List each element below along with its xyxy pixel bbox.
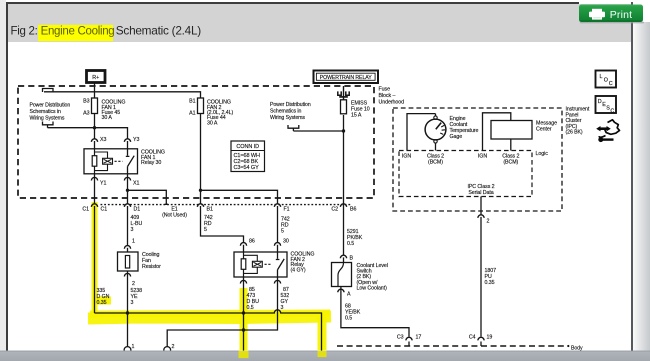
- wire label 473 D BU 0.5: [247, 293, 260, 311]
- connector B coolant switch: [343, 255, 345, 257]
- connector F1: [277, 204, 279, 206]
- wire X1 down to D1 and resistor (ckt 409): [127, 174, 129, 252]
- connector relay2 pin 87: [277, 280, 279, 282]
- svg-text:POWERTRAIN RELAY: POWERTRAIN RELAY: [320, 75, 372, 81]
- svg-text:1: 1: [132, 239, 135, 245]
- highlighter runoff over strip (fan2 drop): [318, 351, 327, 358]
- connector X3: [94, 139, 96, 141]
- wire label 5238 YE 3: [131, 288, 143, 306]
- highlighter on fan2 feed drop: [318, 314, 327, 350]
- svg-text:Logic: Logic: [536, 151, 549, 157]
- Fuse Block Underhood note: [379, 87, 405, 106]
- svg-text:CONN ID: CONN ID: [236, 144, 259, 150]
- power distribution note (middle): [270, 102, 311, 121]
- svg-text:C: C: [610, 108, 614, 114]
- fuse 45 COOLING FAN 1: [92, 98, 98, 114]
- connector X1: [127, 177, 129, 179]
- gauge G1 Engine Coolant Temperature Gage: [425, 119, 446, 140]
- svg-text:2: 2: [172, 344, 175, 350]
- svg-text:C4: C4: [469, 335, 476, 341]
- wire C4 to body ground: [480, 342, 482, 347]
- connector B1: [200, 204, 202, 206]
- connector A coolant switch: [340, 289, 342, 291]
- svg-text:Power Distribution: Power Distribution: [270, 102, 311, 108]
- wire message center to Class 2: [510, 139, 512, 151]
- fuse block underhood dashed box: [18, 86, 374, 198]
- svg-text:A: A: [347, 292, 351, 298]
- connector below resistor pin 2: [127, 273, 129, 275]
- svg-text:B: B: [350, 256, 354, 262]
- highlighter horizontal band over fan feed bus: [88, 317, 331, 319]
- svg-text:Schematics in: Schematics in: [270, 109, 301, 115]
- connector D1: [127, 204, 129, 206]
- svg-text:(Not Used): (Not Used): [162, 213, 187, 219]
- wire fuse 45 to relay: [94, 114, 96, 149]
- wire label 742 RD 5 (F1): [281, 217, 290, 235]
- svg-text:B1: B1: [207, 207, 213, 213]
- connector C2 pin B6: [343, 204, 345, 206]
- node B1 branch: [199, 189, 202, 192]
- svg-text:A3: A3: [83, 111, 89, 117]
- left gutter: [0, 0, 6, 361]
- instrument panel cluster dashed box: [393, 108, 562, 211]
- wire EMISS fuse to C2 and coolant switch (ckt 5291): [343, 115, 345, 263]
- bottom grey strip: [0, 351, 650, 361]
- svg-text:B6: B6: [350, 207, 356, 213]
- svg-text:R+: R+: [92, 75, 99, 81]
- resistor R1 Cooling Fan Resistor box: [118, 252, 139, 271]
- svg-text:C2: C2: [331, 207, 338, 213]
- EMISS fuse holder: [343, 86, 345, 100]
- svg-text:86: 86: [249, 239, 255, 245]
- svg-text:Print: Print: [610, 9, 633, 21]
- relay 2 suppression element: [252, 261, 262, 267]
- relay 2 coil: [243, 252, 245, 277]
- svg-text:Engine Cooling: Engine Cooling: [41, 26, 115, 38]
- print button: [580, 22, 644, 24]
- wire R+ to bus: [94, 83, 96, 99]
- node bus/473 junction: [242, 311, 245, 314]
- connector C3 pin 17: [408, 337, 410, 339]
- window frame lines: [6, 2, 579, 4]
- svg-text:(4 GY): (4 GY): [291, 268, 306, 274]
- svg-text:Fuse: Fuse: [379, 87, 391, 93]
- svg-text:1: 1: [132, 344, 135, 350]
- wire label 1807 PU 0.35: [485, 268, 497, 286]
- svg-text:Fig 2:: Fig 2:: [11, 26, 38, 38]
- title bar: [8, 4, 631, 42]
- svg-text:2: 2: [132, 281, 135, 287]
- svg-text:Relay 30: Relay 30: [141, 160, 161, 166]
- svg-text:IGN: IGN: [402, 154, 411, 160]
- fuse EMISS Fuse 10: [341, 100, 347, 114]
- connector row dotted line: [101, 204, 353, 206]
- highlighter on wire 473: [240, 288, 248, 350]
- svg-text:Resistor: Resistor: [142, 264, 161, 270]
- CONN ID table: [231, 141, 265, 172]
- wire label 68 YE/BK 0.5: [345, 304, 361, 322]
- wire B1 branch to F1 and relay 2 pin 30: [201, 190, 278, 252]
- svg-text:C1: C1: [82, 207, 89, 213]
- battery feed R+ box: [87, 71, 106, 83]
- fan 2 motor terminal: [164, 347, 171, 354]
- LOC button box: [596, 71, 617, 88]
- POWERTRAIN RELAY label box: [314, 71, 379, 84]
- svg-text:Power Distribution: Power Distribution: [30, 103, 71, 109]
- svg-text:C: C: [609, 81, 613, 87]
- wire fuse 44 to B1 and relay 2 pin 86: [201, 114, 244, 253]
- relay 2 switch: [276, 252, 284, 277]
- power distribution bracket bottom: [43, 122, 54, 128]
- svg-text:30 A: 30 A: [102, 115, 113, 121]
- svg-text:Wiring Systems: Wiring Systems: [30, 115, 65, 121]
- connector relay2 pin 30: [277, 242, 279, 244]
- fuse 44 COOLING FAN 2: [198, 98, 204, 114]
- coolant switch blade: [338, 263, 344, 287]
- wire gauge to Class 2: [435, 143, 437, 150]
- svg-text:Y3: Y3: [133, 137, 139, 143]
- relay 1 coil: [94, 149, 96, 174]
- svg-text:F1: F1: [284, 207, 290, 213]
- connector relay2 pin 85: [243, 280, 245, 282]
- node 473/532 junction: [242, 328, 245, 331]
- relay 1 coil suppression loop: [95, 152, 108, 171]
- svg-text:Schematics in: Schematics in: [30, 109, 61, 115]
- svg-text:0.35: 0.35: [97, 300, 107, 306]
- svg-text:B3: B3: [83, 99, 89, 105]
- svg-text:A1: A1: [189, 111, 195, 117]
- svg-text:(BCM): (BCM): [503, 160, 518, 166]
- connector C1: [94, 204, 96, 206]
- wire label 742 RD 5 (B1): [204, 215, 213, 233]
- svg-text:5: 5: [204, 227, 207, 233]
- svg-text:C3: C3: [397, 335, 404, 341]
- connector C4 pin 19: [480, 337, 482, 339]
- svg-text:3: 3: [131, 300, 134, 306]
- svg-text:(BCM): (BCM): [428, 160, 443, 166]
- wire gauge IGN feed: [407, 114, 436, 151]
- svg-text:Center: Center: [536, 127, 552, 133]
- relay U1 COOLING FAN 1 Relay 30 box: [84, 149, 138, 174]
- svg-text:0.35: 0.35: [485, 280, 495, 286]
- wire label 532 GY 3: [281, 293, 290, 311]
- relay 1 actuator dashes: [115, 160, 123, 162]
- relay 1 suppression element: [103, 158, 113, 164]
- connector Y1: [94, 177, 96, 179]
- fan 1 motor terminal: [124, 347, 131, 354]
- node fuse/coil junction: [93, 126, 96, 129]
- power distribution note (left): [30, 103, 71, 122]
- svg-text:X1: X1: [133, 181, 139, 187]
- svg-text:15 A: 15 A: [351, 113, 362, 119]
- wire message center IGN feed: [483, 113, 511, 151]
- wire resistor to bus and fan1 (ckt 5238): [127, 271, 129, 347]
- svg-text:3: 3: [131, 227, 134, 233]
- svg-text:3: 3: [281, 305, 284, 311]
- svg-text:19: 19: [487, 335, 493, 341]
- node bus/resistor junction: [126, 311, 129, 314]
- wire Y1 to C1 to bus (ckt 335): [94, 174, 96, 313]
- connector pin 2 below IPC: [480, 215, 482, 217]
- power distribution bracket (middle): [288, 125, 299, 131]
- svg-text:30: 30: [283, 239, 289, 245]
- svg-text:17: 17: [416, 335, 422, 341]
- switch S1 Coolant Level Switch box: [332, 263, 352, 287]
- wire pin 85 down (ckt 473): [243, 277, 245, 351]
- svg-text:O: O: [604, 78, 608, 84]
- power distribution bracket top: [43, 89, 54, 93]
- svg-text:D: D: [598, 99, 602, 105]
- wire pin 87 to fan2 connector (ckt 532): [167, 277, 277, 347]
- svg-text:0.5: 0.5: [345, 316, 352, 322]
- highlighter runoff over strip (473 wire): [239, 351, 249, 359]
- svg-text:30 A: 30 A: [207, 120, 218, 126]
- svg-text:IGN: IGN: [478, 154, 487, 160]
- relay 1 switch: [126, 149, 134, 174]
- svg-text:Underhood: Underhood: [379, 99, 405, 105]
- svg-text:X3: X3: [100, 137, 106, 143]
- wire X1 branch to E1: [128, 190, 169, 204]
- hotlink jump icon: [596, 120, 619, 142]
- svg-text:(26 BK): (26 BK): [566, 130, 583, 136]
- Instrument Panel Cluster note: [566, 107, 590, 136]
- svg-text:5: 5: [281, 229, 284, 235]
- node X1 branch: [126, 189, 129, 192]
- relay 2 coil suppression loop: [244, 255, 258, 273]
- wire bracket to Y3: [48, 128, 128, 149]
- wire C3 to body ground: [408, 342, 410, 347]
- svg-text:Low Coolant): Low Coolant): [357, 285, 388, 291]
- svg-text:L: L: [600, 74, 603, 80]
- IPC logic inner dashed box: [399, 151, 532, 197]
- connector Y3: [127, 139, 129, 141]
- relay U2 COOLING FAN 2 Relay box: [234, 252, 287, 277]
- wire switch A to C3 (ckt 68): [341, 287, 409, 337]
- highlighter on wire 335 from C1: [92, 202, 98, 318]
- svg-text:Wiring Systems: Wiring Systems: [270, 115, 305, 121]
- svg-text:Serial Data: Serial Data: [468, 190, 493, 196]
- svg-text:B1: B1: [189, 99, 195, 105]
- wire bracket to EMISS wire: [293, 130, 343, 132]
- svg-text:0.5: 0.5: [247, 305, 254, 311]
- svg-text:D1: D1: [134, 207, 141, 213]
- svg-text:2: 2: [487, 219, 490, 225]
- svg-text:Schematic (2.4L): Schematic (2.4L): [116, 24, 201, 38]
- DESC button box: [596, 96, 617, 113]
- svg-text:C3=54 GY: C3=54 GY: [234, 165, 260, 171]
- bus wire bracket to fuse 44: [44, 92, 201, 98]
- fan feed bus wire with hop: [95, 310, 322, 351]
- right shadow: [633, 22, 650, 351]
- wire label 409 L-BU 3: [131, 215, 143, 233]
- svg-text:Y1: Y1: [100, 181, 106, 187]
- relay 2 actuator dashes: [265, 263, 273, 265]
- highlighter over 0.35 label: [94, 297, 111, 305]
- connector above resistor pin 1: [127, 245, 129, 247]
- node EMISS/power distribution junction: [342, 129, 345, 132]
- message center U3 box: [491, 121, 532, 140]
- body ground dashed line: [337, 345, 566, 347]
- title highlight: [38, 25, 113, 41]
- svg-text:0.5: 0.5: [347, 241, 354, 247]
- svg-text:Block –: Block –: [379, 93, 396, 99]
- svg-text:C1: C1: [101, 207, 108, 213]
- connector relay2 pin 86: [243, 242, 245, 244]
- wire label 5291 PK/BK 0.5: [347, 229, 363, 247]
- wire label 335 D GN 0.35: [97, 288, 110, 306]
- wire IPC serial data to C4 (ckt 1807): [480, 197, 482, 337]
- svg-text:Gage: Gage: [450, 134, 463, 140]
